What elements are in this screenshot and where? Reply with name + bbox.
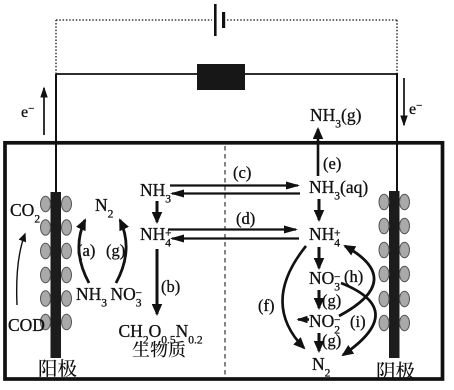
label: cathode (Chinese) (378, 362, 415, 380)
arrow: NH3 to NH4+ (middle) (156, 201, 159, 222)
anode biofilm beads left column (41, 196, 51, 330)
wire: cathode lead down (396, 73, 398, 193)
battery V1 short plate (222, 12, 225, 28)
svg-text:CH2O0.5N0.2: CH2O0.5N0.2 (119, 321, 203, 347)
arrow (e): NH3(aq) volatilization to NH3(g) (317, 129, 320, 176)
svg-text:(f): (f) (258, 296, 274, 315)
arrow (b): NH4+ to biomass (156, 249, 159, 314)
label: anode (Chinese) (40, 359, 77, 377)
membrane: dashed divider (224, 146, 226, 376)
wire: dotted battery branch top right (227, 19, 397, 21)
svg-text:(g): (g) (322, 331, 341, 350)
cathode biofilm beads left column (379, 194, 389, 331)
anode electrode bar (51, 192, 62, 358)
arrow (g): NO3- to N2 curved (116, 220, 126, 283)
svg-text:N2: N2 (312, 354, 331, 380)
arrow: NO3- to NO2- (318, 290, 321, 308)
svg-text:e−: e− (409, 100, 422, 118)
svg-text:(g): (g) (322, 291, 341, 310)
svg-text:(e): (e) (323, 154, 341, 173)
arrow (a): NH3 to N2 curved (79, 220, 89, 283)
svg-text:(i): (i) (350, 312, 366, 331)
svg-text:(d): (d) (236, 209, 255, 228)
arrow (i curve): NO2- to NH4+ via right sweep (339, 246, 374, 316)
resistor R1 (black box) (197, 64, 245, 90)
arrow (f): NH4+ anammox to N2 (282, 246, 306, 348)
svg-text:NO3−: NO3− (111, 284, 143, 310)
arrow (c) reverse: NH3(aq) to NH3 (172, 192, 300, 194)
arrow: NO2- to N2 (318, 333, 321, 351)
wire: solid resistor branch right (245, 73, 397, 75)
arrow: NH3(aq) to NH4+ (cathode) (318, 199, 321, 220)
arrow: electron flow up (left) (43, 88, 45, 135)
svg-text:e−: e− (21, 103, 34, 121)
anode biofilm beads right column (62, 196, 72, 330)
wire: solid resistor branch left (56, 73, 197, 75)
arrow (d) reverse (172, 237, 299, 239)
wire: dotted battery branch left vertical (55, 20, 57, 74)
svg-text:CO2: CO2 (10, 200, 40, 226)
arrow: electron flow down (right) (403, 78, 405, 125)
svg-text:NO3−: NO3− (309, 268, 341, 294)
arrow (h curve): NO3- to N2 via right sweep (341, 283, 376, 355)
svg-text:N2: N2 (95, 195, 114, 221)
battery V1 long plate (214, 4, 217, 36)
wire: dotted battery branch top left (56, 19, 212, 21)
svg-text:NH3: NH3 (76, 284, 107, 310)
svg-text:NH4+: NH4+ (309, 224, 341, 250)
svg-text:NH3(g): NH3(g) (310, 105, 362, 131)
svg-text:(c): (c) (233, 163, 251, 182)
cathode biofilm beads right column (400, 194, 410, 331)
svg-text:(a): (a) (77, 241, 95, 260)
arrow (c) forward: NH3 to NH3(aq) (170, 184, 298, 186)
svg-text:NH4+: NH4+ (140, 224, 172, 250)
svg-text:NH3(aq): NH3(aq) (309, 177, 368, 203)
svg-text:COD: COD (8, 315, 45, 335)
svg-text:(g): (g) (106, 241, 125, 260)
wire: anode lead down (55, 74, 57, 193)
arrow: COD to CO2 oxidation (17, 234, 25, 305)
label: biomass (Chinese) (133, 341, 185, 358)
wire: dotted battery branch right vertical (396, 20, 398, 73)
arrow: NO2- consumed leftwards (298, 318, 309, 321)
svg-text:(h): (h) (344, 267, 363, 286)
reactor vessel box (5, 143, 443, 379)
svg-text:(b): (b) (161, 277, 180, 296)
arrow: NH4+ to NO3- nitrification (318, 247, 321, 268)
cathode electrode bar (389, 191, 400, 358)
arrow (d) forward: NH4+ to NH4+ (cathode) (168, 228, 296, 230)
